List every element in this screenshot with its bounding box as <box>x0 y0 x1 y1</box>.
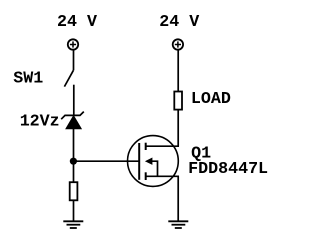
svg-text:FDD8447L: FDD8447L <box>188 160 268 179</box>
svg-text:12Vz: 12Vz <box>20 112 60 131</box>
svg-text:24 V: 24 V <box>159 13 199 32</box>
svg-text:SW1: SW1 <box>13 70 43 89</box>
svg-text:24 V: 24 V <box>57 13 97 32</box>
svg-text:LOAD: LOAD <box>191 90 231 109</box>
